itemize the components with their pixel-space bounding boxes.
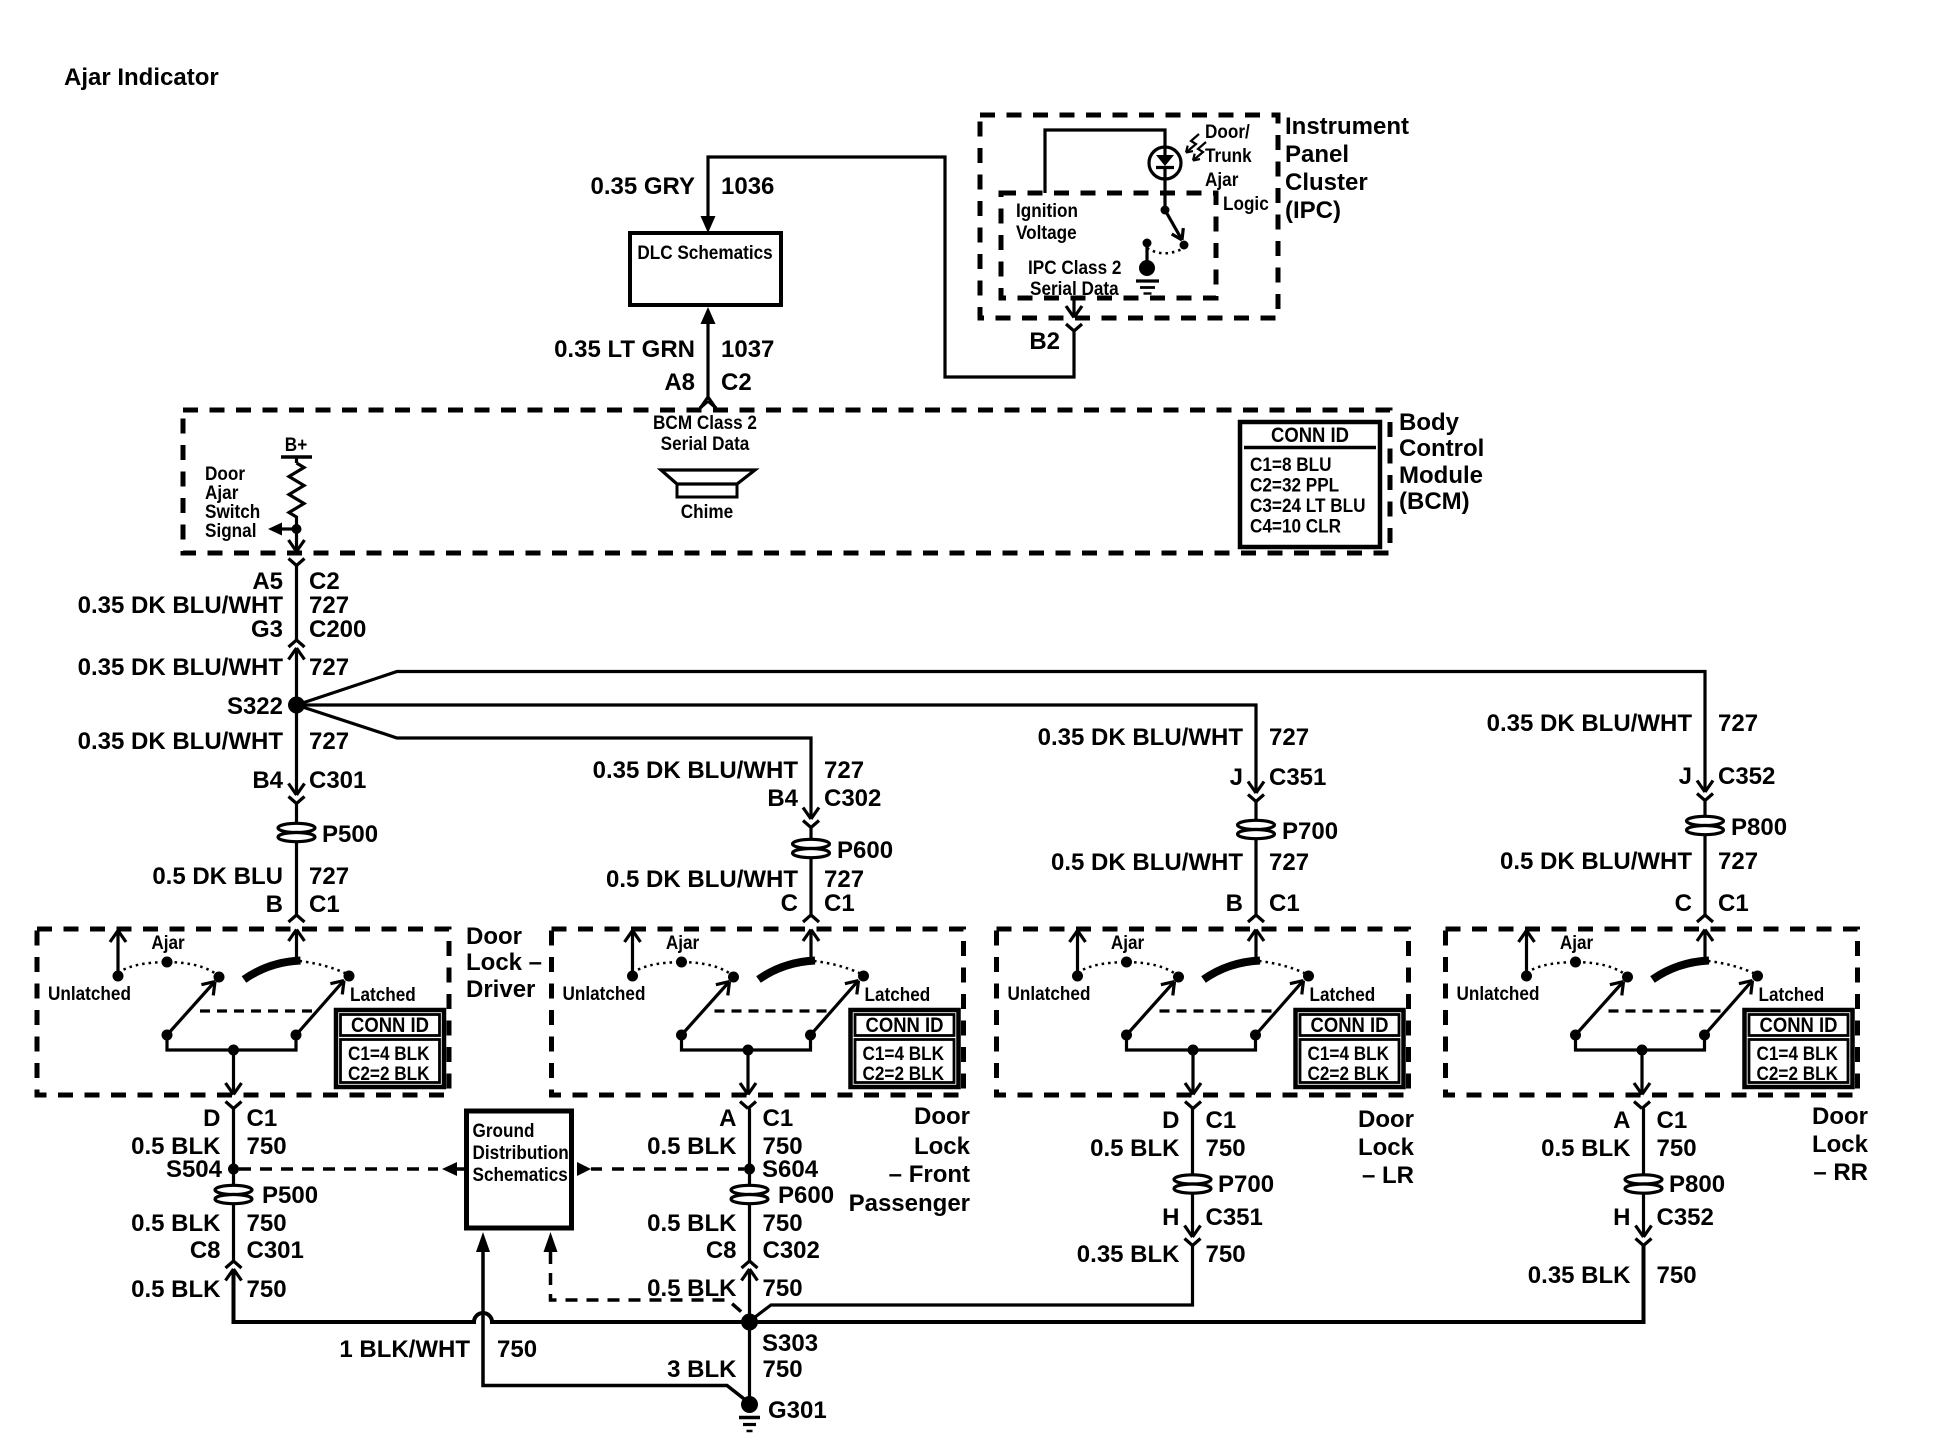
svg-text:750: 750 bbox=[1657, 1262, 1697, 1289]
svg-text:Serial Data: Serial Data bbox=[661, 432, 750, 454]
svg-text:J: J bbox=[1230, 764, 1243, 791]
svg-text:C: C bbox=[1675, 890, 1692, 917]
svg-text:Latched: Latched bbox=[1310, 983, 1376, 1005]
svg-text:A8: A8 bbox=[664, 369, 695, 396]
svg-text:0.35 DK BLU/WHT: 0.35 DK BLU/WHT bbox=[593, 757, 799, 784]
svg-text:C2=2 BLK: C2=2 BLK bbox=[863, 1062, 945, 1084]
svg-text:Body: Body bbox=[1399, 409, 1460, 436]
svg-text:0.35 GRY: 0.35 GRY bbox=[591, 173, 696, 200]
svg-text:C: C bbox=[781, 890, 798, 917]
svg-text:Signal: Signal bbox=[205, 519, 256, 541]
svg-text:CONN ID: CONN ID bbox=[1311, 1014, 1389, 1037]
svg-text:Voltage: Voltage bbox=[1016, 221, 1077, 243]
svg-text:DLC Schematics: DLC Schematics bbox=[637, 241, 772, 263]
svg-text:Door: Door bbox=[1812, 1103, 1868, 1130]
svg-text:P800: P800 bbox=[1669, 1171, 1725, 1198]
svg-text:3 BLK: 3 BLK bbox=[667, 1356, 737, 1383]
svg-text:Panel: Panel bbox=[1285, 141, 1349, 168]
svg-text:0.5 DK BLU/WHT: 0.5 DK BLU/WHT bbox=[606, 866, 798, 893]
svg-text:Trunk: Trunk bbox=[1205, 144, 1252, 166]
svg-text:C1=8 BLU: C1=8 BLU bbox=[1250, 453, 1332, 475]
svg-text:C8: C8 bbox=[706, 1237, 737, 1264]
svg-text:S504: S504 bbox=[166, 1156, 223, 1183]
svg-text:Serial Data: Serial Data bbox=[1030, 277, 1119, 299]
svg-text:A: A bbox=[719, 1105, 736, 1132]
svg-text:C3=24 LT BLU: C3=24 LT BLU bbox=[1250, 494, 1365, 516]
svg-text:Ajar: Ajar bbox=[151, 931, 184, 953]
svg-text:P700: P700 bbox=[1282, 818, 1338, 845]
svg-text:C2=2 BLK: C2=2 BLK bbox=[1308, 1062, 1390, 1084]
svg-text:0.35 DK BLU/WHT: 0.35 DK BLU/WHT bbox=[1038, 724, 1244, 751]
svg-text:Latched: Latched bbox=[1759, 983, 1825, 1005]
svg-text:750: 750 bbox=[1206, 1241, 1246, 1268]
svg-text:727: 727 bbox=[309, 863, 349, 890]
svg-text:Door: Door bbox=[914, 1103, 970, 1130]
svg-text:B+: B+ bbox=[285, 433, 307, 455]
svg-text:(BCM): (BCM) bbox=[1399, 488, 1470, 515]
svg-text:C352: C352 bbox=[1718, 763, 1775, 790]
svg-text:Ajar: Ajar bbox=[1560, 931, 1593, 953]
svg-text:Ajar: Ajar bbox=[666, 931, 699, 953]
svg-text:Instrument: Instrument bbox=[1285, 113, 1409, 140]
svg-text:0.5 DK BLU/WHT: 0.5 DK BLU/WHT bbox=[1051, 849, 1243, 876]
svg-text:C1: C1 bbox=[1269, 890, 1300, 917]
svg-text:C200: C200 bbox=[309, 616, 366, 643]
svg-text:1037: 1037 bbox=[721, 336, 774, 363]
svg-text:750: 750 bbox=[1657, 1135, 1697, 1162]
svg-text:B: B bbox=[266, 891, 283, 918]
svg-text:727: 727 bbox=[1269, 724, 1309, 751]
svg-text:D: D bbox=[203, 1105, 220, 1132]
svg-text:Unlatched: Unlatched bbox=[1457, 982, 1540, 1004]
svg-text:S604: S604 bbox=[762, 1156, 819, 1183]
svg-text:C301: C301 bbox=[309, 767, 366, 794]
svg-text:Lock: Lock bbox=[1358, 1134, 1415, 1161]
svg-text:Schematics: Schematics bbox=[473, 1163, 568, 1185]
svg-text:C302: C302 bbox=[824, 785, 881, 812]
svg-text:0.5 BLK: 0.5 BLK bbox=[647, 1210, 737, 1237]
svg-text:C1: C1 bbox=[763, 1105, 794, 1132]
svg-text:P600: P600 bbox=[778, 1182, 834, 1209]
svg-text:Driver: Driver bbox=[466, 976, 535, 1003]
svg-text:Logic: Logic bbox=[1223, 192, 1269, 214]
svg-text:Lock: Lock bbox=[914, 1133, 971, 1160]
svg-text:Ajar Indicator: Ajar Indicator bbox=[64, 64, 219, 91]
svg-text:C1: C1 bbox=[309, 891, 340, 918]
svg-text:Passenger: Passenger bbox=[849, 1190, 970, 1217]
svg-text:0.35 DK BLU/WHT: 0.35 DK BLU/WHT bbox=[1487, 710, 1693, 737]
svg-text:727: 727 bbox=[309, 654, 349, 681]
svg-text:B4: B4 bbox=[767, 785, 798, 812]
svg-text:S322: S322 bbox=[227, 693, 283, 720]
svg-text:0.5 BLK: 0.5 BLK bbox=[1090, 1135, 1180, 1162]
svg-text:1 BLK/WHT: 1 BLK/WHT bbox=[339, 1336, 470, 1363]
svg-text:Door: Door bbox=[466, 923, 522, 950]
svg-text:B: B bbox=[1226, 890, 1243, 917]
svg-text:727: 727 bbox=[1269, 849, 1309, 876]
svg-text:P700: P700 bbox=[1218, 1171, 1274, 1198]
svg-text:CONN ID: CONN ID bbox=[1271, 424, 1349, 447]
svg-text:CONN ID: CONN ID bbox=[1760, 1014, 1838, 1037]
svg-text:C351: C351 bbox=[1206, 1204, 1263, 1231]
svg-text:C1: C1 bbox=[1206, 1107, 1237, 1134]
svg-text:0.5 BLK: 0.5 BLK bbox=[131, 1210, 221, 1237]
svg-text:– RR: – RR bbox=[1813, 1159, 1868, 1186]
svg-text:Module: Module bbox=[1399, 462, 1483, 489]
svg-text:IPC Class 2: IPC Class 2 bbox=[1028, 256, 1121, 278]
svg-text:C1=4 BLK: C1=4 BLK bbox=[863, 1042, 945, 1064]
svg-text:0.35 DK BLU/WHT: 0.35 DK BLU/WHT bbox=[78, 728, 284, 755]
svg-text:J: J bbox=[1679, 763, 1692, 790]
svg-text:Door: Door bbox=[1358, 1106, 1414, 1133]
svg-text:750: 750 bbox=[763, 1275, 803, 1302]
svg-text:750: 750 bbox=[1206, 1135, 1246, 1162]
svg-text:C351: C351 bbox=[1269, 764, 1326, 791]
svg-text:0.5 BLK: 0.5 BLK bbox=[647, 1275, 737, 1302]
svg-text:P500: P500 bbox=[262, 1182, 318, 1209]
svg-text:0.5 DK BLU/WHT: 0.5 DK BLU/WHT bbox=[1500, 848, 1692, 875]
svg-text:C1: C1 bbox=[1718, 890, 1749, 917]
svg-text:Unlatched: Unlatched bbox=[563, 982, 646, 1004]
svg-text:C1: C1 bbox=[247, 1105, 278, 1132]
svg-text:0.5 BLK: 0.5 BLK bbox=[1541, 1135, 1631, 1162]
svg-text:G301: G301 bbox=[768, 1397, 827, 1424]
svg-text:750: 750 bbox=[497, 1336, 537, 1363]
svg-text:C352: C352 bbox=[1657, 1204, 1714, 1231]
svg-text:750: 750 bbox=[763, 1356, 803, 1383]
svg-text:727: 727 bbox=[1718, 848, 1758, 875]
svg-text:Ground: Ground bbox=[473, 1119, 535, 1141]
svg-text:BCM Class 2: BCM Class 2 bbox=[653, 411, 757, 433]
svg-text:727: 727 bbox=[1718, 710, 1758, 737]
svg-text:C4=10 CLR: C4=10 CLR bbox=[1250, 514, 1341, 536]
svg-text:750: 750 bbox=[247, 1210, 287, 1237]
svg-text:C2: C2 bbox=[721, 369, 752, 396]
svg-text:0.5 BLK: 0.5 BLK bbox=[131, 1276, 221, 1303]
svg-text:750: 750 bbox=[763, 1210, 803, 1237]
svg-text:Cluster: Cluster bbox=[1285, 169, 1368, 196]
svg-text:C302: C302 bbox=[763, 1237, 820, 1264]
svg-text:Door/: Door/ bbox=[1205, 120, 1250, 142]
svg-text:0.5 DK BLU: 0.5 DK BLU bbox=[152, 863, 283, 890]
svg-text:C8: C8 bbox=[190, 1237, 221, 1264]
svg-text:0.35 DK BLU/WHT: 0.35 DK BLU/WHT bbox=[78, 654, 284, 681]
svg-text:A: A bbox=[1613, 1107, 1630, 1134]
svg-text:P500: P500 bbox=[322, 821, 378, 848]
svg-text:C1=4 BLK: C1=4 BLK bbox=[1308, 1042, 1390, 1064]
svg-text:C2=2 BLK: C2=2 BLK bbox=[1757, 1062, 1839, 1084]
svg-text:Unlatched: Unlatched bbox=[48, 982, 131, 1004]
svg-text:B2: B2 bbox=[1029, 328, 1060, 355]
svg-text:Control: Control bbox=[1399, 435, 1484, 462]
svg-text:(IPC): (IPC) bbox=[1285, 197, 1341, 224]
svg-text:Ajar: Ajar bbox=[1205, 168, 1238, 190]
svg-text:750: 750 bbox=[247, 1276, 287, 1303]
svg-text:727: 727 bbox=[309, 728, 349, 755]
svg-text:Ignition: Ignition bbox=[1016, 199, 1078, 221]
svg-text:Lock –: Lock – bbox=[466, 949, 542, 976]
svg-text:A5: A5 bbox=[252, 568, 283, 595]
svg-text:727: 727 bbox=[824, 757, 864, 784]
svg-text:– LR: – LR bbox=[1362, 1162, 1414, 1189]
svg-text:Distribution: Distribution bbox=[473, 1141, 569, 1163]
svg-text:D: D bbox=[1162, 1107, 1179, 1134]
svg-text:1036: 1036 bbox=[721, 173, 774, 200]
svg-text:0.35 BLK: 0.35 BLK bbox=[1077, 1241, 1180, 1268]
svg-text:0.35 DK BLU/WHT: 0.35 DK BLU/WHT bbox=[78, 592, 284, 619]
svg-text:C1: C1 bbox=[1657, 1107, 1688, 1134]
svg-text:H: H bbox=[1162, 1204, 1179, 1231]
svg-text:0.5 BLK: 0.5 BLK bbox=[647, 1133, 737, 1160]
svg-text:C2=32 PPL: C2=32 PPL bbox=[1250, 473, 1339, 495]
svg-text:CONN ID: CONN ID bbox=[351, 1014, 429, 1037]
svg-text:Ajar: Ajar bbox=[1111, 931, 1144, 953]
svg-text:C2=2 BLK: C2=2 BLK bbox=[348, 1062, 430, 1084]
svg-text:Unlatched: Unlatched bbox=[1008, 982, 1091, 1004]
svg-text:Latched: Latched bbox=[350, 983, 416, 1005]
svg-text:P800: P800 bbox=[1731, 814, 1787, 841]
svg-text:0.35 BLK: 0.35 BLK bbox=[1528, 1262, 1631, 1289]
svg-text:C1=4 BLK: C1=4 BLK bbox=[1757, 1042, 1839, 1064]
svg-text:0.35 LT GRN: 0.35 LT GRN bbox=[554, 336, 695, 363]
svg-text:B4: B4 bbox=[252, 767, 283, 794]
svg-text:Lock: Lock bbox=[1812, 1131, 1869, 1158]
svg-text:P600: P600 bbox=[837, 837, 893, 864]
svg-text:C1: C1 bbox=[824, 890, 855, 917]
svg-text:727: 727 bbox=[824, 866, 864, 893]
svg-text:G3: G3 bbox=[251, 616, 283, 643]
svg-text:C1=4 BLK: C1=4 BLK bbox=[348, 1042, 430, 1064]
svg-text:727: 727 bbox=[309, 592, 349, 619]
svg-text:H: H bbox=[1613, 1204, 1630, 1231]
svg-text:C301: C301 bbox=[247, 1237, 304, 1264]
svg-text:C2: C2 bbox=[309, 568, 340, 595]
svg-text:750: 750 bbox=[247, 1133, 287, 1160]
svg-text:S303: S303 bbox=[762, 1330, 818, 1357]
svg-text:– Front: – Front bbox=[889, 1161, 970, 1188]
svg-text:Latched: Latched bbox=[865, 983, 931, 1005]
svg-text:CONN ID: CONN ID bbox=[866, 1014, 944, 1037]
svg-text:Chime: Chime bbox=[681, 500, 733, 522]
